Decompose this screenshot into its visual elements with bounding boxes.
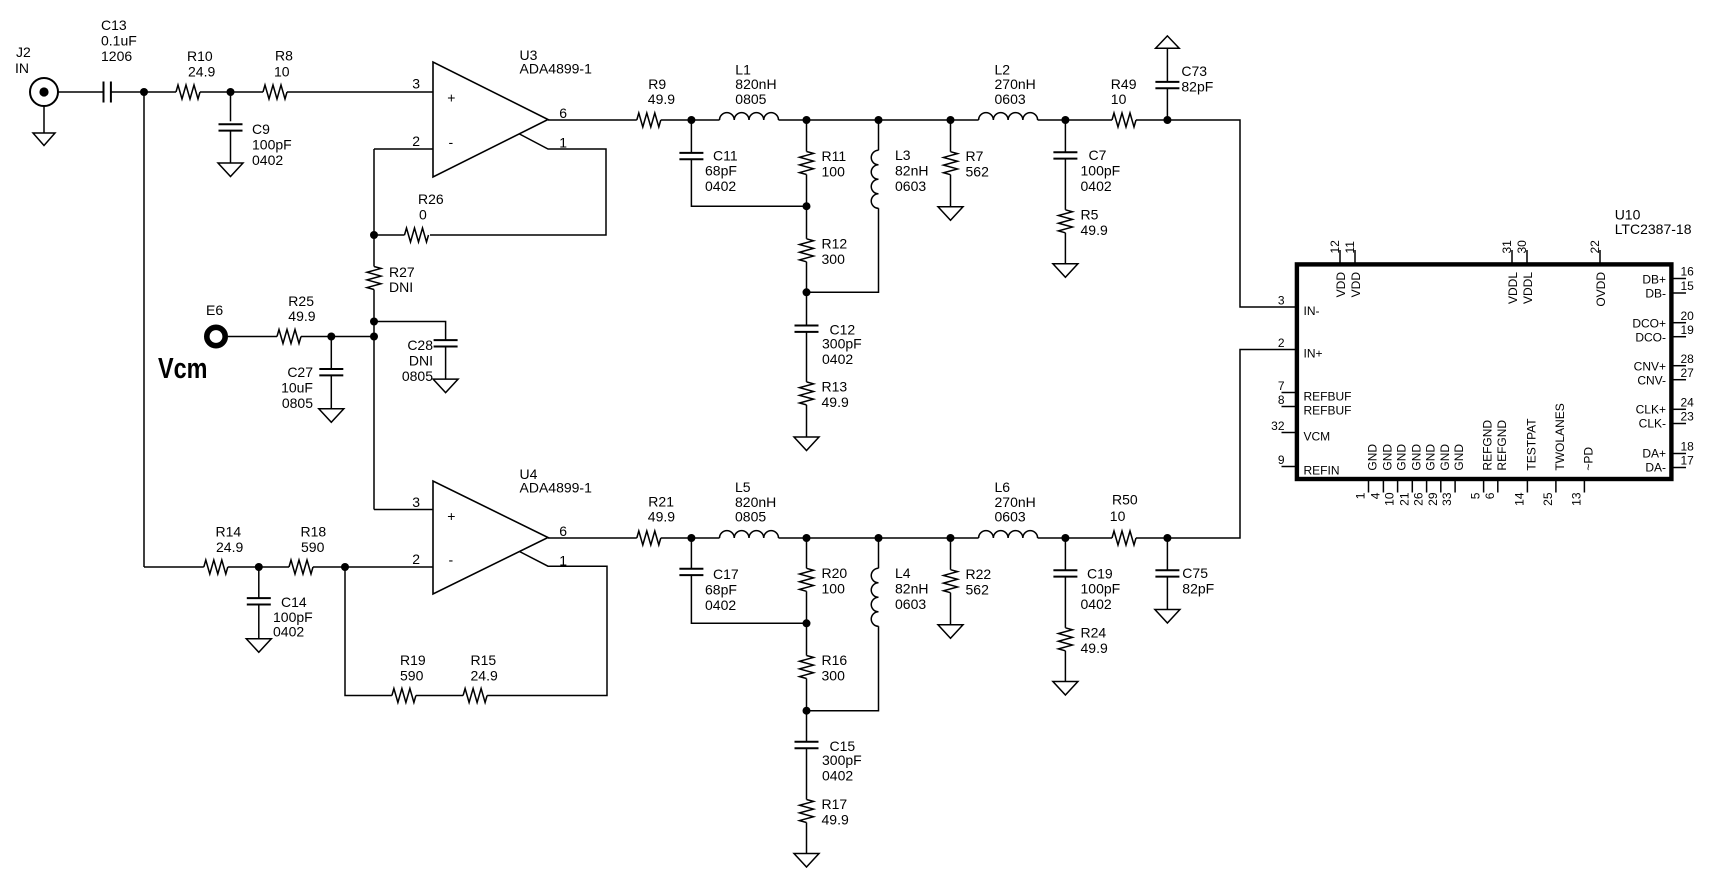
svg-text:R20: R20: [822, 565, 848, 581]
wire: [690, 120, 692, 153]
node: [327, 333, 335, 341]
capacitor C14: [247, 594, 313, 640]
svg-text:0402: 0402: [705, 597, 736, 613]
capacitor C17: [679, 566, 738, 613]
svg-text:22: 22: [1588, 240, 1602, 254]
svg-text:1: 1: [1354, 492, 1368, 499]
resistor R20: [800, 565, 848, 597]
svg-text:21: 21: [1397, 492, 1411, 506]
svg-text:C13: C13: [101, 17, 127, 33]
svg-text:49.9: 49.9: [1081, 640, 1108, 656]
capacitor C9: [219, 121, 292, 168]
resistor R9: [637, 76, 675, 127]
node: [370, 318, 378, 326]
svg-text:VDD: VDD: [1334, 272, 1348, 298]
wire: [374, 148, 433, 150]
U10 pin 27 CNV-: [1637, 366, 1694, 388]
svg-text:820nH: 820nH: [735, 494, 776, 510]
U10 pin 4 GND: [1368, 444, 1394, 500]
resistor R18: [289, 524, 326, 575]
U10 pin 7 REFBUF: [1278, 379, 1352, 404]
capacitor C75: [1155, 565, 1214, 597]
node: [803, 116, 811, 124]
svg-text:GND: GND: [1380, 444, 1394, 471]
pin 1 label: [559, 135, 567, 151]
svg-text:VCM: VCM: [1304, 430, 1331, 444]
pin 6 label: [559, 523, 567, 539]
wire: [806, 748, 808, 799]
wire: [313, 566, 433, 568]
svg-text:300: 300: [822, 668, 846, 684]
svg-text:10: 10: [1383, 492, 1397, 506]
svg-text:17: 17: [1681, 454, 1695, 468]
svg-text:R50: R50: [1112, 492, 1138, 508]
svg-text:L5: L5: [735, 479, 751, 495]
wire: [950, 593, 952, 625]
svg-text:100: 100: [822, 164, 846, 180]
svg-text:R8: R8: [275, 48, 293, 64]
capacitor C15: [795, 738, 862, 784]
svg-text:15: 15: [1681, 279, 1695, 293]
svg-text:2: 2: [412, 133, 420, 149]
svg-text:0805: 0805: [735, 91, 766, 107]
svg-text:C27: C27: [287, 364, 313, 380]
svg-text:23: 23: [1681, 410, 1695, 424]
U10 pin 10 GND: [1383, 444, 1409, 506]
U10 pin 6 REFGND: [1483, 420, 1509, 500]
svg-text:0805: 0805: [735, 509, 766, 525]
svg-text:VDDL: VDDL: [1521, 272, 1535, 304]
svg-text:0402: 0402: [1081, 178, 1112, 194]
svg-text:49.9: 49.9: [822, 394, 849, 410]
wire: [111, 91, 176, 93]
svg-text:DNI: DNI: [389, 279, 413, 295]
wire: [1166, 48, 1168, 82]
node: [803, 288, 811, 296]
ground: [246, 639, 271, 653]
resistor R14: [204, 524, 244, 575]
wire: [806, 262, 808, 326]
wire: [806, 538, 808, 568]
U10 pin 8 REFBUF: [1278, 393, 1352, 418]
svg-text:R27: R27: [389, 264, 415, 280]
svg-text:10uF: 10uF: [281, 380, 313, 396]
node: [370, 231, 378, 239]
U10 pin 17 DA-: [1645, 454, 1694, 475]
svg-text:24.9: 24.9: [216, 539, 243, 555]
ground: [319, 409, 344, 423]
wire: [691, 575, 806, 623]
wire: [287, 91, 433, 93]
resistor R49: [1111, 76, 1137, 127]
wire: [301, 336, 374, 338]
svg-text:300pF: 300pF: [822, 336, 862, 352]
svg-text:GND: GND: [1452, 444, 1466, 471]
connector J2: [15, 44, 58, 106]
svg-text:270nH: 270nH: [995, 494, 1036, 510]
svg-text:10: 10: [1111, 91, 1127, 107]
wire: [416, 695, 463, 697]
svg-text:R16: R16: [822, 652, 848, 668]
svg-text:0603: 0603: [895, 596, 926, 612]
node: [803, 534, 811, 542]
node: [875, 534, 883, 542]
wire: [807, 626, 879, 710]
connector E6: [206, 302, 225, 346]
ground: [1155, 610, 1180, 624]
inductor L5: [720, 479, 779, 538]
svg-text:33: 33: [1440, 492, 1454, 506]
capacitor C7: [1053, 147, 1120, 194]
svg-text:REFBUF: REFBUF: [1304, 390, 1352, 404]
svg-text:LTC2387-18: LTC2387-18: [1615, 221, 1692, 237]
svg-text:R13: R13: [822, 378, 848, 394]
wire: [661, 537, 720, 539]
inductor L3: [871, 147, 928, 208]
svg-text:820nH: 820nH: [735, 76, 776, 92]
wire: [1064, 651, 1066, 682]
svg-text:270nH: 270nH: [995, 76, 1036, 92]
wire: [1064, 538, 1066, 570]
U10 pin 2 IN+: [1278, 336, 1323, 360]
wire: [1038, 119, 1112, 121]
capacitor C28: [402, 337, 458, 384]
wire: [430, 134, 606, 235]
node: [1163, 534, 1171, 542]
pin 1 label: [559, 553, 567, 569]
svg-text:C73: C73: [1181, 63, 1207, 79]
svg-text:DCO-: DCO-: [1635, 331, 1666, 345]
U10 pin 3 IN-: [1278, 294, 1320, 318]
capacitor C13: [101, 17, 137, 103]
capacitor C73: [1155, 63, 1213, 94]
svg-text:GND: GND: [1366, 444, 1380, 471]
wire: [950, 120, 952, 152]
svg-text:L4: L4: [895, 565, 911, 581]
U10 pin 23 CLK-: [1639, 410, 1695, 431]
svg-text:0402: 0402: [822, 768, 853, 784]
svg-text:R49: R49: [1111, 76, 1137, 92]
wire: [806, 332, 808, 382]
svg-text:300pF: 300pF: [822, 752, 862, 768]
wire: [58, 91, 103, 93]
svg-text:0402: 0402: [822, 351, 853, 367]
wire: [230, 92, 232, 121]
inductor L1: [720, 61, 779, 120]
svg-text:68pF: 68pF: [705, 163, 737, 179]
svg-text:0402: 0402: [705, 178, 736, 194]
svg-text:16: 16: [1681, 265, 1695, 279]
resistor R15: [463, 652, 498, 703]
wire: [661, 119, 720, 121]
svg-text:R12: R12: [822, 235, 848, 251]
wire: [806, 405, 808, 437]
wire: [258, 567, 260, 598]
node: [947, 116, 955, 124]
node: [803, 202, 811, 210]
svg-text:REFBUF: REFBUF: [1304, 404, 1352, 418]
wire: [345, 567, 392, 696]
svg-text:ADA4899-1: ADA4899-1: [520, 480, 593, 496]
svg-text:R22: R22: [966, 566, 992, 582]
inductor L4: [871, 565, 928, 627]
U10 pin 20 DCO+: [1632, 309, 1694, 331]
resistor R50: [1110, 492, 1138, 546]
node: [687, 116, 695, 124]
wire: [878, 120, 880, 150]
U10 pin 14 TESTPAT: [1512, 418, 1538, 506]
resistor R21: [637, 494, 675, 546]
ground: [938, 625, 963, 639]
svg-text:IN: IN: [15, 60, 29, 76]
svg-text:R9: R9: [648, 76, 666, 92]
resistor R26: [405, 191, 444, 242]
U10 pin 18 DA+: [1642, 440, 1694, 461]
wire: [258, 605, 260, 639]
U10 pin 29 GND: [1426, 444, 1452, 506]
node: [803, 619, 811, 627]
svg-text:3: 3: [412, 76, 420, 92]
svg-text:0805: 0805: [402, 368, 433, 384]
resistor R7: [944, 148, 990, 180]
ground: [938, 207, 963, 221]
svg-text:14: 14: [1512, 492, 1526, 506]
svg-text:300: 300: [822, 251, 846, 267]
U10 pin 15 DB-: [1645, 279, 1694, 300]
svg-text:R10: R10: [187, 48, 213, 64]
U10 pin 32 VCM: [1271, 419, 1330, 444]
U10 pin 19 DCO-: [1635, 323, 1694, 345]
svg-text:C7: C7: [1089, 147, 1107, 163]
svg-text:C11: C11: [713, 148, 738, 164]
U10 pin 28 CNV+: [1634, 352, 1695, 374]
svg-text:12: 12: [1328, 240, 1342, 254]
wire: [1038, 537, 1112, 539]
U10 pin 5 REFGND: [1469, 420, 1495, 500]
svg-text:0805: 0805: [282, 395, 313, 411]
U10 pin 21 GND: [1397, 444, 1423, 506]
svg-text:7: 7: [1278, 379, 1285, 393]
svg-text:0402: 0402: [252, 152, 283, 168]
wire: [950, 538, 952, 570]
U10 pin 13 ~PD: [1569, 447, 1595, 506]
ground: [433, 379, 458, 393]
pin 2 label: [412, 133, 420, 149]
resistor R25: [277, 293, 316, 344]
ground: [218, 163, 243, 177]
svg-text:ADA4899-1: ADA4899-1: [520, 61, 593, 77]
wire: [950, 175, 952, 207]
svg-text:24.9: 24.9: [188, 63, 215, 79]
pin 3 label: [412, 76, 420, 92]
U10 pin 1 GND: [1354, 444, 1380, 500]
svg-text:8: 8: [1278, 393, 1285, 407]
svg-text:25: 25: [1541, 492, 1555, 506]
wire: [228, 336, 277, 338]
wire: [1166, 88, 1168, 120]
svg-text:6: 6: [559, 523, 567, 539]
svg-text:CLK-: CLK-: [1639, 417, 1666, 431]
ground: [1053, 682, 1078, 696]
net label Vcm: [158, 353, 208, 385]
svg-text:3: 3: [412, 494, 420, 510]
wire: [1136, 120, 1297, 307]
svg-text:49.9: 49.9: [822, 812, 849, 828]
node: [1163, 116, 1171, 124]
U10 pin 30 VDDL: [1515, 240, 1535, 304]
svg-text:18: 18: [1681, 440, 1695, 454]
svg-text:R19: R19: [400, 652, 426, 668]
svg-text:0603: 0603: [995, 509, 1026, 525]
wire: [779, 119, 979, 121]
wire: [806, 679, 808, 743]
svg-text:11: 11: [1343, 241, 1357, 254]
svg-text:4: 4: [1368, 492, 1382, 499]
svg-text:82nH: 82nH: [895, 580, 928, 596]
svg-text:20: 20: [1681, 309, 1695, 323]
node: [875, 116, 883, 124]
svg-text:24: 24: [1681, 396, 1695, 410]
svg-text:590: 590: [301, 539, 325, 555]
wire: [330, 375, 332, 408]
svg-text:1206: 1206: [101, 48, 132, 64]
svg-text:R18: R18: [301, 524, 327, 540]
U10 pin 9 REFIN: [1278, 453, 1340, 478]
svg-text:49.9: 49.9: [648, 91, 675, 107]
svg-text:24.9: 24.9: [471, 668, 498, 684]
svg-text:0402: 0402: [273, 624, 304, 640]
wire: [1064, 233, 1066, 264]
svg-text:R21: R21: [648, 494, 674, 510]
wire: [807, 208, 879, 292]
wire: [200, 91, 263, 93]
svg-text:C75: C75: [1182, 565, 1208, 581]
capacitor C12: [795, 322, 862, 368]
inductor L6: [979, 479, 1038, 538]
wire: [228, 566, 289, 568]
svg-text:0.1uF: 0.1uF: [101, 33, 137, 49]
ground: [1053, 264, 1078, 278]
wire: [487, 552, 607, 696]
wire: [806, 591, 808, 655]
wire: [806, 120, 808, 152]
svg-text:2: 2: [412, 551, 420, 567]
wire: [1136, 350, 1297, 539]
svg-text:TESTPAT: TESTPAT: [1524, 418, 1538, 471]
svg-text:VDDL: VDDL: [1506, 272, 1520, 304]
svg-text:-: -: [449, 552, 454, 568]
wire: [806, 175, 808, 239]
svg-text:CNV-: CNV-: [1637, 374, 1666, 388]
node: [370, 333, 378, 341]
svg-text:+: +: [447, 89, 455, 105]
resistor R22: [944, 566, 992, 598]
wire: [548, 119, 637, 121]
inductor L2: [979, 61, 1038, 120]
svg-text:0: 0: [419, 207, 427, 223]
svg-text:32: 32: [1271, 419, 1285, 433]
svg-text:82nH: 82nH: [895, 163, 928, 179]
ground: [33, 106, 55, 146]
resistor R19: [392, 652, 426, 703]
svg-text:6: 6: [1483, 492, 1497, 499]
wire: [779, 537, 979, 539]
wire: [690, 538, 692, 569]
node: [341, 563, 349, 571]
wire: [878, 538, 880, 568]
node: [687, 534, 695, 542]
wire: [374, 509, 433, 511]
node: [255, 563, 263, 571]
svg-text:30: 30: [1515, 240, 1529, 254]
svg-text:REFGND: REFGND: [1481, 420, 1495, 471]
svg-text:R14: R14: [216, 524, 242, 540]
svg-text:DCO+: DCO+: [1632, 317, 1666, 331]
svg-text:0603: 0603: [995, 91, 1026, 107]
svg-text:26: 26: [1412, 492, 1426, 506]
svg-text:C14: C14: [281, 594, 307, 610]
svg-text:DA-: DA-: [1645, 461, 1666, 475]
svg-text:6: 6: [559, 105, 567, 121]
pin 2 label: [412, 551, 420, 567]
wire: [1064, 577, 1066, 628]
svg-text:27: 27: [1681, 366, 1695, 380]
svg-text:0402: 0402: [1081, 596, 1112, 612]
node: [803, 707, 811, 715]
op-amp U4: [433, 466, 592, 594]
svg-text:590: 590: [400, 668, 424, 684]
svg-text:49.9: 49.9: [648, 509, 675, 525]
U10 pin 25 TWOLANES: [1541, 403, 1567, 506]
svg-text:19: 19: [1681, 323, 1695, 337]
svg-text:DB+: DB+: [1642, 273, 1666, 287]
svg-text:100pF: 100pF: [252, 137, 292, 153]
U10 pin 31 VDDL: [1500, 240, 1520, 304]
svg-text:31: 31: [1500, 240, 1514, 254]
U10 pin 26 GND: [1412, 444, 1438, 506]
svg-text:100pF: 100pF: [1081, 581, 1121, 597]
wire: [1166, 577, 1168, 610]
wire: [1166, 538, 1168, 570]
resistor R12: [800, 235, 848, 266]
svg-text:10: 10: [1110, 508, 1126, 524]
svg-text:E6: E6: [206, 302, 223, 318]
svg-text:2: 2: [1278, 336, 1285, 350]
svg-text:CNV+: CNV+: [1634, 360, 1666, 374]
svg-text:IN-: IN-: [1304, 304, 1320, 318]
svg-text:IN+: IN+: [1304, 347, 1323, 361]
U10 pin 22 OVDD: [1588, 240, 1608, 307]
wire: [330, 337, 332, 370]
resistor R27: [367, 264, 415, 295]
wire: [144, 566, 204, 568]
IC U10 LTC2387-18: [1297, 207, 1692, 480]
svg-text:DA+: DA+: [1642, 447, 1666, 461]
wire: [691, 159, 806, 206]
pin 6 label: [559, 105, 567, 121]
svg-text:R17: R17: [822, 796, 848, 812]
svg-text:3: 3: [1278, 294, 1285, 308]
svg-text:9: 9: [1278, 453, 1285, 467]
wire: [806, 823, 808, 854]
capacitor C11: [679, 148, 737, 195]
svg-text:C17: C17: [713, 566, 739, 582]
wire: [143, 92, 145, 567]
svg-text:562: 562: [966, 582, 990, 598]
svg-text:-: -: [449, 134, 454, 150]
capacitor C19: [1053, 566, 1120, 613]
svg-text:L1: L1: [735, 61, 751, 77]
